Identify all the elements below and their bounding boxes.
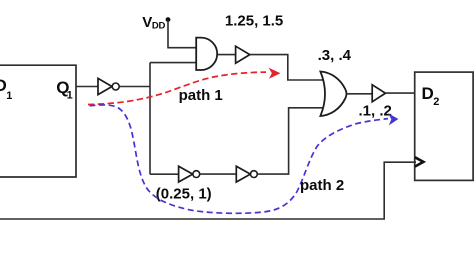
feedback wire from bottom to D2 input (0, 162, 416, 219)
VDD label (142, 14, 165, 31)
svg-text:path 2: path 2 (300, 177, 344, 194)
buffer B1 (236, 46, 250, 63)
path 2 blue dashed arrow (90, 105, 389, 213)
wire buffer B1 to OR top input (250, 55, 323, 80)
svg-text:path 1: path 1 (179, 87, 223, 104)
svg-text:1: 1 (67, 90, 73, 102)
wire between bottom inverters (200, 173, 237, 175)
wire OR to buffer B2 (347, 93, 372, 95)
wire node A to AND lower input (150, 62, 196, 64)
svg-text:V: V (142, 14, 152, 31)
svg-text:1.25, 1.5: 1.25, 1.5 (225, 13, 283, 30)
inverter I1 (after Q1) (98, 78, 119, 94)
svg-text:1: 1 (6, 90, 12, 102)
node A vertical wire (149, 63, 151, 175)
inverter B (bottom path) (236, 166, 257, 182)
wire AND to buffer (217, 54, 235, 56)
wire inverter B to OR bottom input (257, 108, 323, 174)
wire inverter to node A (119, 86, 150, 88)
inverter A (bottom path) (179, 166, 200, 182)
path 2 blue arrowhead (389, 114, 397, 124)
svg-text:(0.25, 1): (0.25, 1) (156, 185, 212, 202)
flip-flop FF1 (left box, clipped at image edge) (0, 65, 76, 177)
wire Q1 to inverter (76, 86, 98, 88)
svg-text:.1, .2: .1, .2 (359, 103, 392, 120)
wire node A to bottom inverter A (150, 173, 179, 175)
VDD dot (166, 17, 171, 22)
arrowhead into D2 (415, 157, 423, 166)
path 1 red dashed arrow (88, 72, 266, 104)
svg-text:DD: DD (152, 20, 166, 31)
flip-flop FF2 (right box, clipped at image edge) (415, 72, 473, 180)
OR gate U2 (320, 72, 346, 117)
wire buffer B2 to D2 box (385, 92, 414, 94)
AND gate U1 (196, 38, 217, 70)
wire VDD to AND upper input (168, 20, 196, 48)
buffer B2 (372, 85, 385, 102)
path 1 red arrowhead (270, 69, 280, 78)
svg-text:D: D (422, 84, 434, 103)
svg-text:.3, .4: .3, .4 (318, 47, 352, 64)
svg-text:2: 2 (433, 96, 439, 108)
